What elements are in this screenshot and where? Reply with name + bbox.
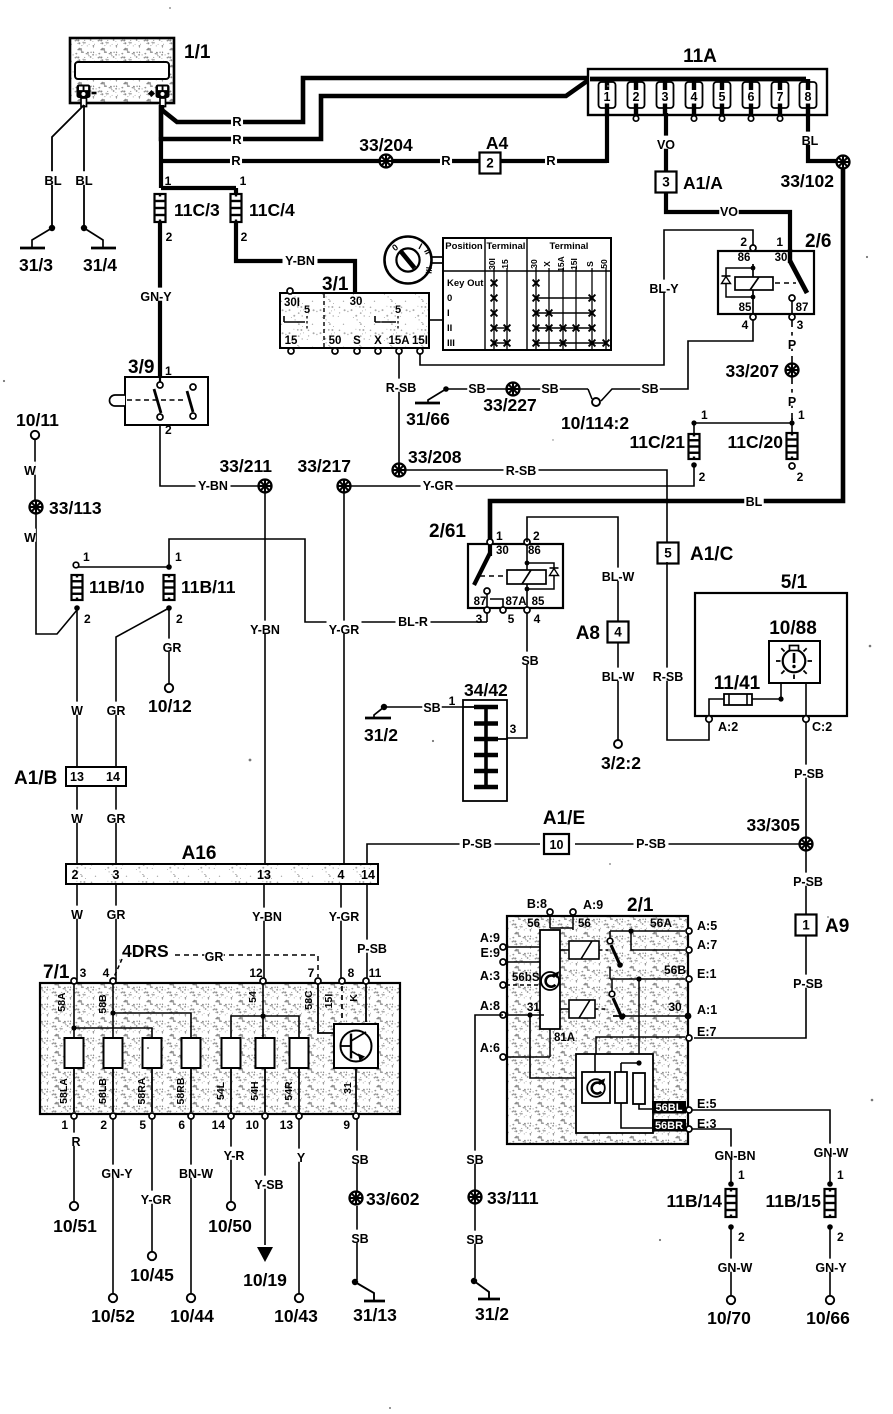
ground 31/2 (left of 34/42) <box>381 704 387 710</box>
svg-text:85: 85 <box>739 302 752 314</box>
svg-text:11C/3: 11C/3 <box>174 200 220 220</box>
svg-text:R-SB: R-SB <box>653 670 684 684</box>
svg-text:2: 2 <box>486 156 494 171</box>
wire BL fuse 8 to splice 33/102 <box>808 113 837 161</box>
svg-text:58LA: 58LA <box>58 1078 70 1104</box>
wire R switch 7/1 to connector 10/51 <box>73 1119 75 1202</box>
connector 10/70 <box>727 1296 735 1304</box>
svg-text:2/61: 2/61 <box>429 521 466 542</box>
svg-text:6: 6 <box>748 90 755 104</box>
wire W fuse 11B/10 to connector A1/B <box>76 608 78 767</box>
svg-text:A:1: A:1 <box>697 1003 717 1017</box>
svg-text:1/1: 1/1 <box>184 42 211 63</box>
svg-text:4: 4 <box>338 868 345 882</box>
wire GR A16 to switch 7/1 pin 4 <box>115 884 117 980</box>
svg-text:P-SB: P-SB <box>636 837 666 851</box>
svg-text:33/102: 33/102 <box>780 171 834 191</box>
svg-text:31/3: 31/3 <box>19 255 53 275</box>
fuse 11B/14 <box>726 1189 737 1217</box>
svg-text:15: 15 <box>285 335 298 347</box>
connector A1/C <box>658 543 679 564</box>
svg-text:1: 1 <box>449 694 456 708</box>
wire GR fuse 11B/11 to connector 10/12 <box>168 608 170 684</box>
svg-text:A:5: A:5 <box>697 919 717 933</box>
svg-text:85: 85 <box>532 596 545 608</box>
svg-text:13: 13 <box>257 868 271 882</box>
wire BL-Y ignition to relay 2/6 pin 86 <box>420 230 753 365</box>
svg-text:30: 30 <box>496 545 509 557</box>
svg-text:Terminal: Terminal <box>550 241 589 252</box>
svg-text:P-SB: P-SB <box>357 942 387 956</box>
relay 2/6 <box>718 251 814 314</box>
svg-text:4: 4 <box>534 612 541 626</box>
svg-text:11B/10: 11B/10 <box>89 577 145 597</box>
svg-text:31/4: 31/4 <box>83 255 117 275</box>
svg-text:15I: 15I <box>412 335 428 347</box>
svg-text:2: 2 <box>740 235 747 249</box>
svg-text:P: P <box>788 395 796 409</box>
svg-text:Position: Position <box>445 241 483 252</box>
wire Y-BN splice 33/211 to A16 <box>264 492 266 864</box>
connector 3/2:2 <box>614 740 622 748</box>
svg-text:4: 4 <box>103 966 110 980</box>
svg-text:33/208: 33/208 <box>408 447 462 467</box>
svg-text:15I: 15I <box>323 994 335 1009</box>
wire fuse 1 down to R wire <box>605 113 609 163</box>
svg-text:Y-BN: Y-BN <box>250 623 280 637</box>
svg-text:14: 14 <box>212 1118 226 1132</box>
svg-text:GN-Y: GN-Y <box>101 1167 133 1181</box>
wire GR fuse 11B/11 to connector A1/B <box>116 608 169 767</box>
splice 33/113 <box>30 501 43 514</box>
svg-text:15: 15 <box>500 259 510 269</box>
svg-text:10/50: 10/50 <box>208 1216 252 1236</box>
svg-text:33/211: 33/211 <box>219 456 272 476</box>
svg-text:Terminal: Terminal <box>487 241 526 252</box>
svg-text:10: 10 <box>246 1118 260 1132</box>
svg-text:P-SB: P-SB <box>462 837 492 851</box>
svg-text:2/1: 2/1 <box>627 895 654 916</box>
connector 10/44 <box>187 1294 195 1302</box>
svg-text:X: X <box>374 335 382 347</box>
svg-text:2: 2 <box>165 423 172 437</box>
svg-text:33/217: 33/217 <box>297 456 351 476</box>
splice 33/217 <box>338 480 351 493</box>
arrow 10/19 <box>257 1247 273 1262</box>
fuse 11B/15 <box>825 1189 836 1217</box>
svg-text:2: 2 <box>533 529 540 543</box>
svg-text:GR: GR <box>107 812 126 826</box>
svg-text:11C/20: 11C/20 <box>728 432 784 452</box>
svg-text:R: R <box>441 153 451 168</box>
svg-text:8: 8 <box>805 90 812 104</box>
svg-text:S: S <box>585 261 595 267</box>
svg-text:2: 2 <box>84 612 91 626</box>
splice 33/204 <box>380 155 393 168</box>
svg-text:R: R <box>546 153 556 168</box>
svg-text:SB: SB <box>466 1233 483 1247</box>
svg-text:11B/15: 11B/15 <box>766 1191 822 1211</box>
splice 33/102 <box>837 156 850 169</box>
svg-text:GN-W: GN-W <box>718 1261 753 1275</box>
svg-text:10/43: 10/43 <box>274 1306 318 1326</box>
connector A8 <box>608 622 629 643</box>
svg-text:GR: GR <box>107 704 126 718</box>
svg-text:33/111: 33/111 <box>487 1188 539 1208</box>
svg-text:56B: 56B <box>664 963 686 977</box>
wire R battery positive to fuse box 11A (top feed) <box>162 78 806 122</box>
wire SB splice 33/602 to ground 31/13 <box>356 1206 358 1280</box>
svg-text:13: 13 <box>70 770 84 784</box>
connector 10/114:2 <box>592 398 600 406</box>
svg-text:K: K <box>348 994 360 1002</box>
svg-text:A4: A4 <box>486 133 509 153</box>
svg-text:15I: 15I <box>569 258 579 270</box>
svg-text:11B/11: 11B/11 <box>181 577 236 597</box>
svg-text:5: 5 <box>139 1118 146 1132</box>
svg-text:86: 86 <box>738 252 751 264</box>
ground 31/3 <box>32 228 52 248</box>
svg-text:14: 14 <box>361 868 375 882</box>
connector A9 <box>796 915 817 936</box>
svg-text:SB: SB <box>466 1153 483 1167</box>
svg-text:10: 10 <box>550 838 564 852</box>
svg-text:1: 1 <box>175 550 182 564</box>
svg-text:A1/C: A1/C <box>690 544 734 565</box>
wire P-SB instrument C:2 to splice 33/305 <box>805 722 807 837</box>
svg-text:R-SB: R-SB <box>386 381 417 395</box>
svg-text:SB: SB <box>351 1232 368 1246</box>
svg-text:12: 12 <box>249 966 263 980</box>
svg-text:1: 1 <box>837 1168 844 1182</box>
svg-text:3: 3 <box>662 90 669 104</box>
connector A4 <box>480 153 501 174</box>
svg-text:56: 56 <box>578 918 591 930</box>
svg-text:15A: 15A <box>556 256 566 272</box>
svg-text:GR: GR <box>107 908 126 922</box>
svg-text:33/204: 33/204 <box>359 135 413 155</box>
svg-text:11C/4: 11C/4 <box>249 200 295 220</box>
svg-text:E:1: E:1 <box>697 967 717 981</box>
svg-text:7: 7 <box>308 966 315 980</box>
svg-text:A1/A: A1/A <box>683 173 723 193</box>
svg-text:1: 1 <box>61 1118 68 1132</box>
svg-text:10/66: 10/66 <box>806 1308 850 1328</box>
svg-text:R: R <box>232 114 242 129</box>
svg-text:10/52: 10/52 <box>91 1306 135 1326</box>
splice 33/111 <box>469 1191 482 1204</box>
svg-text:34/42: 34/42 <box>464 680 508 700</box>
connector 10/43 <box>295 1294 303 1302</box>
fuse 11C/21 <box>689 434 700 459</box>
svg-text:11/41: 11/41 <box>714 673 761 694</box>
ignition key symbol <box>385 237 432 284</box>
svg-text:A:2: A:2 <box>718 720 738 734</box>
wire Y switch 7/1 to connector 10/43 <box>298 1119 300 1294</box>
svg-text:3/9: 3/9 <box>128 357 154 378</box>
svg-text:30I: 30I <box>487 258 497 270</box>
scan specks <box>169 7 171 9</box>
svg-text:4: 4 <box>691 90 698 104</box>
svg-text:W: W <box>71 908 83 922</box>
svg-text:R: R <box>231 153 241 168</box>
svg-text:1: 1 <box>496 529 503 543</box>
svg-text:54L: 54L <box>215 1081 227 1100</box>
svg-text:4: 4 <box>614 625 622 640</box>
svg-text:SB: SB <box>423 701 440 715</box>
svg-text:B:8: B:8 <box>527 897 547 911</box>
svg-text:3: 3 <box>113 868 120 882</box>
svg-text:SB: SB <box>521 654 538 668</box>
svg-text:Y-GR: Y-GR <box>329 623 360 637</box>
wire GN-W fuse 11B/14 to connector 10/70 <box>730 1227 732 1295</box>
svg-text:GN-W: GN-W <box>814 1146 849 1160</box>
svg-text:Y-GR: Y-GR <box>423 479 454 493</box>
wire Y-BN A16 to switch 7/1 pin 12 <box>263 884 265 980</box>
svg-text:54R: 54R <box>283 1081 295 1101</box>
svg-text:X: X <box>542 261 552 267</box>
svg-text:II: II <box>447 323 452 334</box>
wire VO connector A1/A to relay 2/6 <box>666 193 790 266</box>
wire P-SB splice 33/305 to connector A9 <box>805 851 807 915</box>
svg-text:2: 2 <box>738 1230 745 1244</box>
connector 10/52 <box>109 1294 117 1302</box>
svg-text:III: III <box>424 266 435 274</box>
svg-text:30: 30 <box>668 1000 682 1014</box>
svg-text:56BR: 56BR <box>655 1120 683 1132</box>
svg-text:87: 87 <box>796 302 809 314</box>
svg-text:56BL: 56BL <box>656 1102 683 1114</box>
svg-text:5/1: 5/1 <box>781 572 808 593</box>
svg-text:33/602: 33/602 <box>366 1189 420 1209</box>
svg-text:W: W <box>24 531 36 545</box>
svg-text:3: 3 <box>662 175 670 190</box>
svg-text:2: 2 <box>100 1118 107 1132</box>
svg-text:A9: A9 <box>825 916 849 937</box>
svg-text:1: 1 <box>165 174 172 188</box>
wire key to table <box>431 256 443 258</box>
wire Y-R switch 7/1 to connector 10/50 <box>230 1119 232 1202</box>
svg-text:31/2: 31/2 <box>475 1304 509 1324</box>
wire ignition switch to table <box>429 319 443 321</box>
svg-text:A1/E: A1/E <box>543 808 585 829</box>
wire R battery positive to fuse box 11A (second feed) <box>161 79 590 139</box>
svg-text:10/45: 10/45 <box>130 1265 174 1285</box>
svg-text:A8: A8 <box>576 623 600 644</box>
svg-text:SB: SB <box>541 382 558 396</box>
svg-text:E:7: E:7 <box>697 1025 717 1039</box>
svg-text:50: 50 <box>599 259 609 269</box>
svg-text:BL: BL <box>75 173 92 188</box>
svg-text:BL: BL <box>44 173 61 188</box>
svg-text:2: 2 <box>797 470 804 484</box>
svg-text:GN-Y: GN-Y <box>815 1261 847 1275</box>
wire VO fuse 3 to connector A1/A <box>664 113 668 172</box>
connector 10/12 <box>165 684 173 692</box>
svg-text:3: 3 <box>476 612 483 626</box>
svg-text:E:5: E:5 <box>697 1097 717 1111</box>
svg-text:P-SB: P-SB <box>793 977 823 991</box>
wire BL battery negative to ground 31/3 <box>52 105 84 228</box>
ignition switch 3/1 <box>280 293 429 348</box>
fuse 11C/20 <box>787 433 798 459</box>
wire R-SB ignition to splice 33/208 <box>398 354 400 464</box>
svg-text:5: 5 <box>719 90 726 104</box>
svg-text:30: 30 <box>350 296 363 308</box>
svg-text:BL: BL <box>746 495 763 509</box>
svg-text:56A: 56A <box>650 916 672 930</box>
svg-text:10/70: 10/70 <box>707 1308 751 1328</box>
wire GN-BN 2/1 pin E:3 to fuse 11B/14 <box>692 1129 731 1182</box>
ground 31/66 <box>428 389 446 403</box>
wire Y-BN switch 3/9 to splice 33/211 <box>160 425 259 486</box>
svg-text:11C/21: 11C/21 <box>630 432 686 452</box>
svg-text:31: 31 <box>342 1082 354 1094</box>
splice 33/602 <box>350 1192 363 1205</box>
svg-text:A:9: A:9 <box>583 898 603 912</box>
svg-text:III: III <box>447 338 455 349</box>
battery 1/1 <box>70 38 174 103</box>
svg-text:10/19: 10/19 <box>243 1270 287 1290</box>
svg-text:BL-R: BL-R <box>398 615 428 629</box>
svg-text:58RA: 58RA <box>136 1077 148 1104</box>
svg-text:BL-Y: BL-Y <box>649 282 679 296</box>
svg-text:58A: 58A <box>56 992 68 1012</box>
svg-text:7/1: 7/1 <box>43 962 70 983</box>
wire W splice 33/113 to fuse 11B/10 <box>36 513 77 634</box>
svg-text:A:8: A:8 <box>480 999 500 1013</box>
svg-text:4: 4 <box>742 318 749 332</box>
svg-text:GR: GR <box>205 950 224 964</box>
svg-text:86: 86 <box>528 545 541 557</box>
svg-text:11: 11 <box>369 966 382 980</box>
svg-text:SB: SB <box>468 382 485 396</box>
svg-text:1: 1 <box>798 408 805 422</box>
svg-text:Y-R: Y-R <box>224 1149 245 1163</box>
svg-text:3: 3 <box>797 318 804 332</box>
svg-text:56: 56 <box>527 918 540 930</box>
connector 10/51 <box>70 1202 78 1210</box>
wire R-SB splice 33/208 to connector A1/C <box>405 470 667 544</box>
svg-text:8: 8 <box>348 966 355 980</box>
svg-text:33/227: 33/227 <box>483 395 537 415</box>
svg-text:Y: Y <box>297 1151 306 1165</box>
svg-text:BL-W: BL-W <box>602 670 635 684</box>
svg-text:2: 2 <box>72 868 79 882</box>
svg-text:6: 6 <box>178 1118 185 1132</box>
splice 33/207 <box>786 364 799 377</box>
wire W connector A1/B to A16 <box>76 786 78 864</box>
svg-text:Y-BN: Y-BN <box>198 479 228 493</box>
svg-text:GN-Y: GN-Y <box>140 290 172 304</box>
wire Y-SB switch 7/1 to arrow 10/19 <box>264 1119 266 1245</box>
svg-text:2: 2 <box>699 470 706 484</box>
connector 10/50 <box>227 1202 235 1210</box>
svg-text:2: 2 <box>176 612 183 626</box>
wire SB ground 31/66 to relay 2/6 pin 85 <box>443 386 449 392</box>
svg-text:I: I <box>447 308 450 319</box>
wire Y-GR switch 7/1 to connector 10/45 <box>151 1119 153 1252</box>
svg-text:11B/14: 11B/14 <box>667 1191 723 1211</box>
svg-text:1: 1 <box>165 364 172 378</box>
svg-text:VO: VO <box>720 205 738 219</box>
svg-text:SB: SB <box>641 382 658 396</box>
svg-text:P: P <box>788 338 796 352</box>
wire Y-GR fuse 11C/21 to splice 33/217 <box>348 465 694 486</box>
svg-text:GR: GR <box>163 641 182 655</box>
connector 10/45 <box>148 1252 156 1260</box>
svg-text:Y-GR: Y-GR <box>141 1193 172 1207</box>
svg-text:3: 3 <box>510 722 517 736</box>
svg-text:30: 30 <box>775 252 788 264</box>
svg-text:58B: 58B <box>97 994 109 1014</box>
svg-text:31/66: 31/66 <box>406 409 450 429</box>
wire fuse 11B/10 pin1 rail to relay 2/61 pin3 (BL-R) <box>76 566 169 568</box>
wire GR connector A1/B to A16 <box>115 786 117 864</box>
svg-text:10/88: 10/88 <box>769 618 817 639</box>
ground 31/2 <box>471 1278 477 1284</box>
svg-text:A:3: A:3 <box>480 969 500 983</box>
wire BL splice 33/102 down to relay 2/61 <box>490 168 843 544</box>
svg-text:2: 2 <box>241 230 248 244</box>
svg-text:87: 87 <box>474 596 487 608</box>
svg-text:2/6: 2/6 <box>805 231 831 252</box>
svg-text:15A: 15A <box>388 335 409 347</box>
wire P-SB splice 33/305 to connector A1/E and A16 <box>575 843 800 845</box>
splice 33/208 <box>393 464 406 477</box>
svg-text:Key Out: Key Out <box>447 278 484 289</box>
svg-text:33/113: 33/113 <box>49 498 102 518</box>
wire W A16 to switch 7/1 pin 3 <box>76 884 78 980</box>
wire GN-Y fuse 11C/3 to switch 3/9 <box>158 222 162 377</box>
svg-text:W: W <box>71 812 83 826</box>
svg-text:W: W <box>71 704 83 718</box>
svg-text:P-SB: P-SB <box>793 875 823 889</box>
svg-text:30: 30 <box>529 259 539 269</box>
svg-text:31/13: 31/13 <box>353 1305 397 1325</box>
wire Y-BN fuse 11C/4 to ignition switch 3/1 <box>236 222 355 293</box>
wire P relay 2/6 pin 3 to splice 33/207 <box>791 320 793 363</box>
svg-text:3/2:2: 3/2:2 <box>601 753 641 773</box>
splice 33/305 <box>800 838 813 851</box>
svg-text:87A: 87A <box>505 596 526 608</box>
svg-text:1: 1 <box>738 1168 745 1182</box>
ground 31/13 <box>352 1279 358 1285</box>
wire GN-Y switch 7/1 to connector 10/52 <box>112 1119 114 1294</box>
wire P splice 33/207 to fuses 11C/20 11C/21 <box>791 377 793 423</box>
svg-text:S: S <box>353 335 361 347</box>
svg-text:13: 13 <box>280 1118 294 1132</box>
svg-text:54H: 54H <box>249 1081 261 1100</box>
svg-text:A:7: A:7 <box>697 938 717 952</box>
svg-text:58LB: 58LB <box>97 1078 109 1104</box>
svg-text:C:2: C:2 <box>812 720 832 734</box>
svg-text:Y-BN: Y-BN <box>252 910 282 924</box>
svg-text:A1/B: A1/B <box>14 768 57 789</box>
svg-text:30I: 30I <box>284 297 300 309</box>
svg-text:31/2: 31/2 <box>364 725 398 745</box>
svg-text:P-SB: P-SB <box>794 767 824 781</box>
svg-text:A:6: A:6 <box>480 1041 500 1055</box>
svg-text:0: 0 <box>447 293 452 304</box>
svg-text:33/305: 33/305 <box>746 815 800 835</box>
connector A1/A <box>656 172 677 193</box>
svg-text:11A: 11A <box>683 46 717 67</box>
wire BL battery negative to ground 31/4 <box>83 105 85 228</box>
wire P-SB connector A9 to headlamp unit 2/1 pin E:7 <box>694 936 806 1038</box>
svg-text:1: 1 <box>776 235 783 249</box>
svg-text:3: 3 <box>80 966 87 980</box>
